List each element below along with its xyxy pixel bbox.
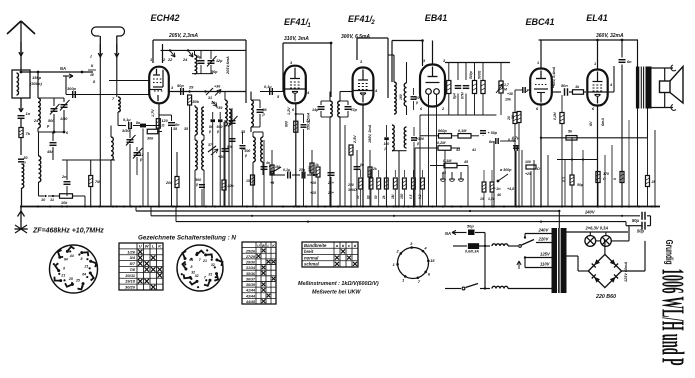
svg-text:64: 64 [64, 257, 68, 261]
svg-text:8n: 8n [489, 140, 494, 144]
svg-text:Ω: Ω [161, 124, 165, 128]
svg-text:EB41: EB41 [425, 13, 448, 23]
svg-text:EBC41: EBC41 [525, 17, 554, 27]
svg-text:K: K [272, 244, 275, 248]
svg-text:170: 170 [603, 172, 609, 176]
svg-text:1,5k: 1,5k [488, 197, 496, 201]
svg-text:2k: 2k [382, 195, 386, 200]
svg-text:M: M [504, 88, 507, 92]
svg-text:19/18: 19/18 [125, 279, 136, 284]
svg-text:8: 8 [613, 178, 617, 180]
svg-text:8: 8 [63, 266, 65, 270]
svg-text:20: 20 [511, 115, 515, 120]
svg-text:41/44: 41/44 [245, 289, 255, 293]
svg-text:30/20: 30/20 [125, 285, 136, 290]
svg-text:24: 24 [33, 119, 39, 123]
svg-text:1n: 1n [26, 111, 31, 116]
svg-text:12p: 12p [216, 59, 223, 63]
svg-text:25/26: 25/26 [245, 249, 256, 253]
svg-text:50μ: 50μ [637, 229, 645, 234]
svg-text:50n: 50n [561, 83, 568, 88]
svg-text:3/4: 3/4 [129, 255, 135, 260]
svg-text:0,1M: 0,1M [458, 129, 467, 133]
svg-text:8: 8 [191, 265, 193, 269]
svg-text:125V: 125V [540, 252, 551, 257]
svg-text:64: 64 [82, 272, 86, 276]
svg-text:7k: 7k [26, 131, 31, 136]
svg-text:31: 31 [208, 272, 212, 276]
svg-text:0,2M: 0,2M [437, 141, 446, 145]
svg-text:41: 41 [471, 148, 476, 152]
svg-text:15: 15 [480, 197, 484, 201]
svg-text:31: 31 [208, 96, 212, 100]
svg-text:8n: 8n [136, 121, 141, 125]
svg-text:43: 43 [455, 148, 460, 152]
svg-text:800: 800 [285, 121, 289, 127]
svg-text:2n: 2n [61, 175, 67, 179]
svg-text:20k: 20k [227, 184, 235, 188]
svg-text:Meßinstrument : 1kΩ/V(600Ω/V): Meßinstrument : 1kΩ/V(600Ω/V) [298, 281, 379, 287]
svg-text:Gezeichnete Schalterstellung :: Gezeichnete Schalterstellung : N [138, 235, 236, 242]
svg-text:5/7: 5/7 [129, 261, 135, 266]
svg-text:50: 50 [24, 156, 28, 160]
svg-text:* 2n: * 2n [494, 187, 501, 191]
svg-text:125V 60mA: 125V 60mA [624, 261, 628, 282]
svg-text:220V: 220V [538, 237, 550, 242]
svg-text:21: 21 [202, 259, 207, 263]
svg-text:1/26: 1/26 [127, 249, 136, 254]
svg-text:1,7V: 1,7V [151, 109, 155, 117]
svg-text:14p: 14p [312, 108, 319, 112]
svg-text:8: 8 [80, 257, 82, 261]
svg-text:8μ4: 8μ4 [453, 93, 457, 99]
svg-text:50μ: 50μ [632, 218, 640, 223]
svg-text:NA: NA [60, 66, 66, 71]
svg-text:500: 500 [245, 149, 251, 153]
svg-text:10k: 10k [505, 98, 512, 102]
svg-text:24: 24 [182, 57, 188, 62]
svg-text:10k: 10k [61, 201, 68, 205]
svg-text:35/36: 35/36 [246, 272, 256, 276]
svg-text:87M: 87M [461, 92, 465, 99]
svg-text:500: 500 [217, 125, 223, 129]
svg-text:U: U [139, 244, 142, 249]
svg-text:100: 100 [525, 160, 531, 164]
svg-text:4n: 4n [265, 161, 270, 165]
svg-text:14: 14 [306, 119, 310, 123]
svg-text:+ 50p: + 50p [488, 131, 498, 135]
svg-text:250: 250 [347, 183, 354, 187]
svg-text:240V: 240V [538, 228, 550, 233]
svg-text:500: 500 [227, 145, 233, 149]
svg-text:Ω: Ω [536, 167, 540, 171]
svg-text:43/44: 43/44 [245, 294, 255, 298]
svg-text:6V: 6V [589, 121, 593, 126]
svg-text:22: 22 [167, 57, 173, 62]
svg-text:15: 15 [246, 179, 250, 183]
svg-text:2: 2 [370, 20, 375, 26]
svg-text:+38: +38 [218, 155, 224, 159]
svg-text:27/29: 27/29 [245, 255, 255, 259]
svg-text:500Ω: 500Ω [478, 70, 482, 79]
svg-text:+39: +39 [216, 106, 223, 110]
svg-text:50p: 50p [467, 224, 474, 229]
svg-text:32: 32 [195, 274, 199, 278]
svg-text:0,5: 0,5 [409, 194, 413, 199]
svg-text:36/37: 36/37 [246, 277, 256, 281]
svg-text:300V, 6,5mA: 300V, 6,5mA [341, 34, 370, 40]
svg-text:Bandbreite: Bandbreite [304, 243, 327, 248]
svg-text:schmal: schmal [304, 262, 320, 267]
svg-text:30k: 30k [147, 137, 154, 141]
svg-text:1M: 1M [391, 194, 395, 199]
svg-text:6n: 6n [627, 59, 632, 64]
svg-text:45a: 45a [46, 150, 53, 154]
svg-text:500p: 500p [469, 71, 473, 79]
svg-text:+25: +25 [525, 172, 531, 176]
svg-text:1/30: 1/30 [60, 117, 68, 121]
svg-text:500: 500 [48, 119, 55, 123]
svg-text:21: 21 [60, 273, 65, 277]
svg-text:38/39: 38/39 [246, 283, 255, 287]
svg-text:+38: +38 [507, 92, 513, 96]
svg-text:0,1M: 0,1M [443, 159, 452, 163]
svg-text:150: 150 [400, 193, 404, 199]
svg-text:15: 15 [430, 258, 435, 263]
svg-text:860p: 860p [438, 129, 447, 133]
svg-text:3/30: 3/30 [122, 129, 130, 133]
svg-text:ZF=468kHz +10,7MHz: ZF=468kHz +10,7MHz [32, 228, 104, 235]
svg-text:EF41/: EF41/ [284, 17, 310, 27]
svg-text:44/45: 44/45 [245, 300, 256, 304]
svg-text:25: 25 [75, 278, 80, 282]
svg-text:1: 1 [150, 57, 152, 62]
svg-text:2,5V: 2,5V [353, 135, 357, 144]
svg-text:normal: normal [304, 255, 319, 260]
svg-text:+4,8: +4,8 [507, 187, 514, 191]
svg-text:NA: NA [445, 231, 451, 236]
svg-text:60: 60 [416, 96, 420, 100]
svg-text:360V, 32mA: 360V, 32mA [596, 33, 624, 39]
svg-text:0,1μ: 0,1μ [508, 138, 516, 142]
svg-text:32: 32 [191, 271, 195, 275]
svg-text:+15: +15 [310, 191, 316, 195]
svg-text:31/34: 31/34 [246, 266, 255, 270]
svg-text:Grundig: Grundig [663, 240, 674, 265]
svg-text:25: 25 [68, 277, 73, 281]
svg-text:300Ω: 300Ω [348, 188, 357, 192]
svg-text:+36: +36 [214, 85, 221, 89]
svg-text:0,6/0,3A: 0,6/0,3A [465, 250, 479, 254]
svg-text:1: 1 [594, 61, 596, 66]
svg-text:310V, 3mA: 310V, 3mA [284, 36, 309, 42]
svg-text:44: 44 [69, 254, 74, 258]
svg-text:EF41/: EF41/ [348, 14, 374, 24]
svg-text:ECH42: ECH42 [150, 13, 179, 23]
svg-text:50p: 50p [177, 83, 184, 88]
svg-text:1M: 1M [275, 165, 280, 169]
svg-text:240V: 240V [584, 210, 596, 215]
svg-text:breit: breit [304, 249, 314, 254]
svg-text:180V, 2mA: 180V, 2mA [368, 124, 372, 143]
svg-text:120: 120 [162, 119, 169, 123]
svg-text:205V, 2,3mA: 205V, 2,3mA [168, 33, 198, 39]
svg-text:29/30: 29/30 [245, 261, 255, 265]
svg-text:29: 29 [188, 85, 194, 90]
svg-text:U: U [257, 244, 260, 248]
svg-text:50: 50 [374, 195, 378, 199]
svg-text:ø 300p: ø 300p [500, 168, 512, 172]
svg-text:0,2M: 0,2M [553, 112, 557, 120]
svg-text:20k: 20k [165, 181, 173, 185]
svg-text:1,2V: 1,2V [287, 107, 291, 115]
svg-text:21: 21 [84, 264, 89, 268]
svg-text:11: 11 [50, 198, 54, 202]
svg-text:0,1μ: 0,1μ [264, 85, 272, 89]
svg-text:300p: 300p [67, 86, 76, 91]
svg-text:205V,6mA: 205V,6mA [226, 56, 230, 75]
svg-text:80k: 80k [193, 99, 200, 104]
svg-text:Meßwerte bei UKW: Meßwerte bei UKW [312, 290, 361, 296]
svg-text:+16: +16 [310, 181, 316, 185]
svg-text:1: 1 [537, 60, 539, 65]
svg-text:72p: 72p [351, 108, 358, 112]
svg-text:5p: 5p [197, 55, 202, 59]
svg-text:2×6,3V 0,3A: 2×6,3V 0,3A [585, 226, 609, 231]
svg-text:6mA: 6mA [601, 118, 605, 126]
svg-text:220 B60: 220 B60 [595, 294, 616, 300]
svg-text:1006 WL/H und P: 1006 WL/H und P [655, 269, 691, 366]
svg-text:300: 300 [195, 178, 202, 182]
svg-text:7/8: 7/8 [129, 267, 135, 272]
svg-text:30/11: 30/11 [125, 273, 135, 278]
svg-text:EL41: EL41 [586, 13, 608, 23]
svg-text:160: 160 [399, 94, 403, 100]
svg-text:(300p): (300p) [30, 81, 42, 86]
svg-text:110V: 110V [540, 262, 551, 267]
svg-text:150p: 150p [32, 75, 42, 80]
svg-text:0,1μ: 0,1μ [283, 168, 291, 172]
svg-text:L: L [267, 244, 269, 248]
svg-text:0,1μ: 0,1μ [123, 118, 131, 122]
svg-text:W: W [262, 244, 266, 248]
svg-text:8n: 8n [360, 163, 364, 167]
